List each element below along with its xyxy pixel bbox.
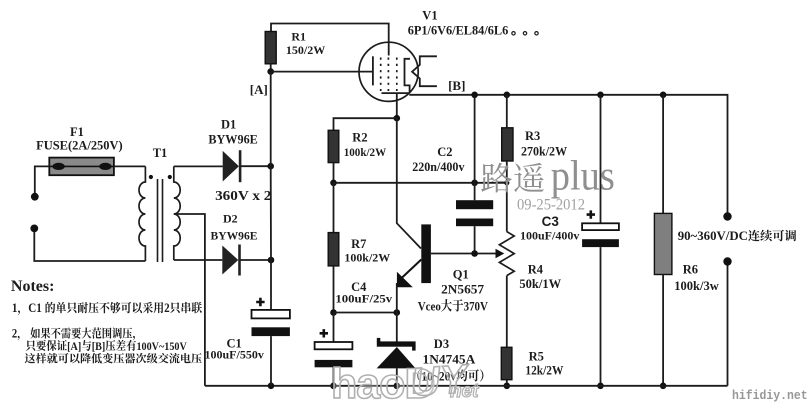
wire top rail R1 to V1 plate bbox=[271, 24, 389, 56]
svg-text:100k/3w: 100k/3w bbox=[674, 279, 718, 293]
wire raw DC column node A to C1 bbox=[270, 72, 272, 310]
svg-text:D3: D3 bbox=[434, 337, 449, 351]
wire node B to C3 top bbox=[600, 95, 602, 224]
wire bottom return rail bbox=[205, 385, 728, 387]
svg-text:net: net bbox=[450, 381, 479, 402]
junction C4 at bottom rail bbox=[330, 383, 337, 390]
V1 cathode lead wire down bbox=[396, 93, 398, 118]
resistor R5 bbox=[501, 347, 512, 379]
C3 polarity plus bbox=[587, 210, 595, 218]
junction D3 at bottom rail bbox=[394, 383, 401, 390]
resistor R3 bbox=[502, 128, 513, 161]
junction mid rail at C2 column bbox=[471, 180, 478, 187]
zener diode D3 triangle bbox=[377, 347, 416, 368]
svg-text:2: 2 bbox=[164, 301, 170, 316]
C1 polarity plus bbox=[256, 298, 264, 306]
wire fuse to transformer primary top bbox=[114, 165, 145, 167]
note 2 line 1 text bbox=[12, 327, 135, 341]
svg-text:F1: F1 bbox=[70, 125, 84, 139]
capacitor C1 bbox=[252, 310, 290, 319]
junction C1 at bottom rail bbox=[268, 383, 275, 390]
note 2 line 2 text bbox=[26, 340, 187, 353]
svg-text:Q1: Q1 bbox=[453, 268, 469, 282]
wire R4 bottom to R5 top bbox=[506, 276, 508, 348]
junction node B at C3 column bbox=[597, 92, 604, 99]
junction node B at C2 column bbox=[471, 92, 478, 99]
wire C1 bottom to ground rail bbox=[270, 336, 272, 386]
wire fuse to AC terminal upper bbox=[35, 166, 50, 193]
svg-text:360V x 2: 360V x 2 bbox=[215, 189, 271, 204]
T1 polarity dot secondary bbox=[168, 175, 172, 179]
V1 grid side bar bbox=[372, 56, 374, 85]
svg-text:R6: R6 bbox=[683, 263, 698, 277]
output terminal positive bbox=[723, 212, 731, 220]
potentiometer R4 zigzag bbox=[499, 232, 514, 276]
svg-text:100k/2W: 100k/2W bbox=[344, 145, 387, 159]
svg-text:R5: R5 bbox=[529, 350, 544, 364]
zener diode D3 cathode bar with hooks bbox=[377, 341, 416, 346]
svg-text:C2: C2 bbox=[437, 145, 452, 159]
note 2 line 3 text bbox=[25, 353, 202, 364]
svg-text:plus: plus bbox=[551, 153, 615, 200]
junction D3 top node bbox=[394, 309, 401, 316]
Q1 note label Vceo > 370V bbox=[418, 299, 489, 314]
V1 grid dashed columns bbox=[380, 58, 382, 92]
wire R5 bottom to ground rail bbox=[506, 380, 508, 386]
svg-text:[B]: [B] bbox=[448, 78, 465, 93]
svg-text:09-25-2012: 09-25-2012 bbox=[517, 196, 585, 213]
svg-text:R7: R7 bbox=[351, 237, 366, 251]
svg-text:C1: C1 bbox=[28, 301, 42, 316]
svg-text:Vceo: Vceo bbox=[418, 299, 441, 314]
output terminal negative bbox=[723, 257, 731, 265]
wire node B to R6 top bbox=[662, 95, 664, 214]
capacitor C3 bbox=[582, 223, 619, 230]
wire C3 bottom to ground rail bbox=[600, 247, 602, 386]
D3 note label (10~20v all ok) bbox=[417, 369, 483, 384]
resistor R7 bbox=[328, 233, 339, 266]
svg-text:R3: R3 bbox=[525, 129, 540, 143]
wire C2 bottom to Q1 base line bbox=[474, 226, 476, 253]
wire R1 bottom to node A bbox=[270, 64, 272, 72]
wire C4 bottom to ground rail bbox=[333, 367, 335, 386]
wire secondary center tap bbox=[174, 214, 205, 386]
wire secondary bottom to D2 anode bbox=[174, 259, 223, 261]
svg-text:[A]: [A] bbox=[250, 82, 268, 97]
svg-text:R4: R4 bbox=[528, 263, 544, 277]
svg-text:100V~150V: 100V~150V bbox=[136, 340, 186, 353]
svg-text:370V: 370V bbox=[464, 299, 489, 314]
svg-text:BYW96E: BYW96E bbox=[208, 133, 257, 147]
svg-text:R2: R2 bbox=[352, 131, 367, 145]
wire C4 node to D3 node bbox=[334, 312, 397, 314]
V1 beam plate with notch bbox=[412, 56, 437, 86]
Q1 emitter wire down to D3 node bbox=[396, 283, 398, 313]
wire node B to R3 top bbox=[506, 95, 508, 128]
svg-text:R1: R1 bbox=[291, 30, 306, 44]
watermark luyao chinese chars bbox=[481, 163, 544, 193]
svg-text:hifidiy.net: hifidiy.net bbox=[732, 389, 808, 403]
output label 90~360V/DC adjustable bbox=[678, 228, 797, 243]
T1 polarity dot primary bbox=[149, 175, 153, 179]
Q1 base lead wire bbox=[431, 253, 496, 255]
Q1 emitter diagonal with arrow bbox=[400, 260, 421, 280]
svg-text:1: 1 bbox=[12, 301, 18, 316]
wire mid node to R7 top bbox=[333, 183, 335, 233]
wire cathode node to R2 branch bbox=[334, 118, 397, 130]
transistor Q1 base bar bbox=[421, 224, 431, 283]
resistor R2 bbox=[328, 130, 339, 162]
svg-text:[B]: [B] bbox=[92, 340, 106, 353]
junction C2 bottom at base line bbox=[471, 250, 478, 257]
svg-text:220n/400v: 220n/400v bbox=[412, 160, 465, 174]
wire node B rail bbox=[409, 95, 727, 213]
svg-text:12k/2W: 12k/2W bbox=[525, 364, 563, 378]
vacuum tube V1 envelope bbox=[359, 42, 418, 101]
junction node A at R1 bottom bbox=[267, 68, 274, 75]
wire D1 cathode to main column bbox=[241, 165, 271, 167]
Q1 collector wire from cathode node bbox=[397, 118, 421, 248]
diode D1 bbox=[223, 151, 239, 182]
junction mid rail at R3/R4 column bbox=[504, 180, 509, 185]
C4 polarity plus bbox=[320, 329, 328, 337]
R4 wiper arrowhead bbox=[496, 249, 505, 258]
junction R5 at bottom rail bbox=[504, 383, 511, 390]
junction R2 bottom mid-rail bbox=[330, 180, 337, 187]
junction R6 at bottom rail bbox=[660, 383, 667, 390]
wire mid horizontal rail bbox=[334, 182, 507, 184]
svg-text:D1: D1 bbox=[221, 117, 236, 131]
watermark haoDIY hollow logo bbox=[331, 357, 479, 408]
wire R6 bottom to ground rail bbox=[662, 275, 664, 386]
wire AC terminal lower to primary bottom bbox=[34, 232, 145, 261]
diode D2 bbox=[222, 246, 238, 275]
wire node B to C2 top bbox=[474, 95, 476, 200]
svg-text:100uF/25v: 100uF/25v bbox=[335, 292, 392, 306]
wire R2 bottom to mid node bbox=[333, 163, 335, 183]
svg-text:FUSE(2A/250V): FUSE(2A/250V) bbox=[36, 138, 123, 152]
svg-text:C3: C3 bbox=[542, 214, 560, 229]
V1 cathode bracket bbox=[405, 59, 411, 93]
svg-text:2: 2 bbox=[12, 327, 18, 341]
resistor R6 bbox=[654, 213, 672, 274]
svg-text:50k/1W: 50k/1W bbox=[519, 277, 561, 291]
wire R3 bottom through mid rail to R4 bbox=[506, 161, 508, 232]
svg-text:D2: D2 bbox=[223, 212, 238, 226]
svg-text:6P1/6V6/EL84/6L6: 6P1/6V6/EL84/6L6 bbox=[408, 24, 509, 38]
note 1 text bbox=[12, 301, 202, 316]
svg-text:T1: T1 bbox=[153, 146, 168, 160]
svg-text:90~360V/DC: 90~360V/DC bbox=[678, 228, 748, 243]
wire D3 anode to ground rail bbox=[396, 368, 398, 385]
wire D2 cathode to main column bbox=[240, 259, 271, 261]
svg-text:100k/2W: 100k/2W bbox=[344, 251, 390, 265]
AC input terminal lower bbox=[30, 225, 38, 233]
V1 type label trailing ideographic dots bbox=[512, 32, 515, 35]
junction C3 at bottom rail bbox=[597, 383, 604, 390]
capacitor C4 bbox=[315, 342, 353, 349]
wire lower output terminal to ground rail bbox=[727, 262, 729, 386]
wire secondary top to D1 anode bbox=[174, 165, 223, 167]
junction C4 node bbox=[330, 309, 337, 316]
svg-text:BYW96E: BYW96E bbox=[211, 230, 258, 242]
transformer T1 primary winding bbox=[139, 166, 145, 261]
svg-text:100uF/550v: 100uF/550v bbox=[205, 348, 264, 362]
wire C4 node to C4 plate bbox=[333, 313, 335, 343]
svg-text:100uF/400v: 100uF/400v bbox=[520, 229, 579, 243]
svg-text:[A]: [A] bbox=[67, 340, 81, 353]
AC input terminal upper bbox=[31, 193, 39, 201]
svg-text:V1: V1 bbox=[422, 9, 437, 23]
transformer T1 core lines bbox=[158, 179, 163, 262]
transformer T1 secondary winding bbox=[174, 166, 180, 260]
svg-text:Notes:: Notes: bbox=[11, 278, 55, 295]
junction cathode node bbox=[394, 115, 401, 122]
resistor R1 bbox=[265, 32, 276, 64]
junction node B at R3 column bbox=[504, 92, 511, 99]
capacitor C2 bbox=[456, 200, 493, 209]
wire R7 bottom to C4 node bbox=[333, 266, 335, 313]
junction node B at R6 column bbox=[660, 92, 667, 99]
junction D2 output node bbox=[268, 257, 275, 264]
junction D1 output node bbox=[267, 163, 274, 170]
V1 bottom electrode line bbox=[382, 92, 410, 94]
svg-text:150/2W: 150/2W bbox=[286, 43, 325, 57]
V1 grid lead wire from node A bbox=[271, 71, 373, 73]
fuse F1 body bbox=[49, 158, 114, 176]
svg-text:2N5657: 2N5657 bbox=[441, 283, 484, 297]
wire D3 node to zener cathode bbox=[396, 313, 398, 342]
